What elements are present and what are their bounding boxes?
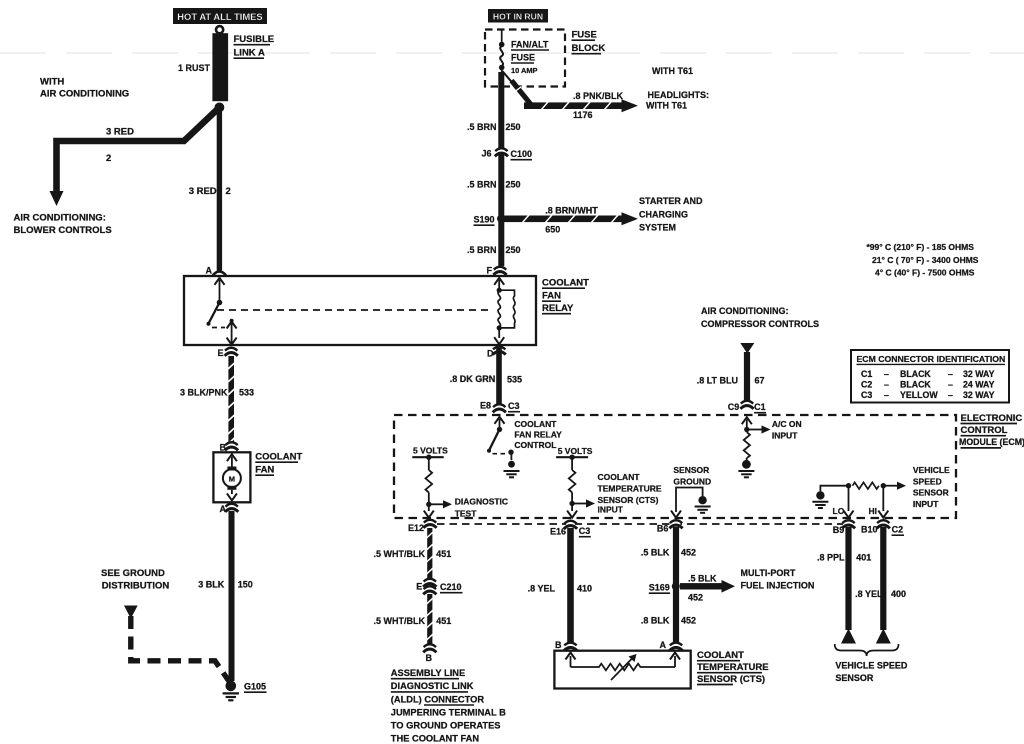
wire fusible link to relay pin A [217, 107, 222, 271]
label FAN/ALT FUSE 10 AMP [511, 40, 549, 76]
fan/alt fuse element [500, 30, 503, 88]
coolant fan motor [223, 467, 241, 490]
svg-text:1176: 1176 [573, 110, 593, 120]
CTS pin A entry arrow [670, 653, 680, 668]
A/C compressor feed triangle [740, 343, 754, 354]
svg-text:–: – [884, 390, 889, 400]
label DIAGNOSTIC TEST [455, 497, 508, 519]
label HEADLIGHTS: WITH T61 [646, 90, 709, 111]
dashed ground wire [131, 616, 230, 682]
svg-text:ELECTRONIC: ELECTRONIC [961, 413, 1023, 424]
svg-text:INPUT: INPUT [598, 505, 624, 515]
label ASSEMBLY LINE DIAGNOSTIC LINK (ALDL) CONNECTOR note [391, 668, 506, 744]
svg-text:C9: C9 [728, 402, 740, 412]
svg-text:400: 400 [891, 589, 906, 599]
relay coil [498, 290, 515, 328]
svg-text:535: 535 [507, 375, 522, 385]
svg-text:CONTROL: CONTROL [514, 440, 556, 450]
svg-text:C2: C2 [892, 525, 904, 535]
svg-text:SPEED: SPEED [913, 476, 942, 486]
svg-text:250: 250 [506, 122, 521, 132]
svg-text:CHARGING: CHARGING [639, 210, 688, 220]
svg-text:DISTRIBUTION: DISTRIBUTION [102, 581, 170, 592]
svg-text:A: A [660, 640, 667, 650]
svg-text:RELAY: RELAY [542, 303, 574, 314]
svg-text:–: – [884, 369, 889, 379]
5 volts supply (CTS) [556, 446, 593, 470]
svg-text:.5 BRN: .5 BRN [467, 122, 497, 132]
CTS input node [567, 492, 595, 517]
speed sensor terminal triangle LO [841, 629, 856, 644]
svg-text:M: M [229, 474, 235, 483]
svg-text:AIR CONDITIONING:: AIR CONDITIONING: [14, 213, 106, 224]
svg-text:ECM CONNECTOR IDENTIFICATION: ECM CONNECTOR IDENTIFICATION [857, 354, 1006, 364]
arrow to A/C blower controls [50, 191, 64, 206]
ECM dashed box [394, 415, 956, 518]
svg-text:.8 BLK: .8 BLK [641, 616, 670, 626]
coolant fan box [213, 452, 250, 502]
sensor ground net [671, 488, 711, 518]
svg-text:THE COOLANT FAN: THE COOLANT FAN [391, 734, 480, 744]
svg-text:STARTER AND: STARTER AND [639, 196, 703, 206]
label FUSE BLOCK [572, 30, 606, 55]
svg-text:3 RED: 3 RED [106, 127, 134, 138]
wire relay D to ECM E8 [496, 348, 502, 404]
svg-text:TO GROUND OPERATES: TO GROUND OPERATES [391, 721, 501, 731]
svg-text:LINK A: LINK A [234, 48, 265, 59]
svg-text:COOLANT: COOLANT [542, 278, 589, 289]
wire B10 to speed sensor [880, 527, 886, 630]
svg-text:S169: S169 [649, 583, 670, 593]
label WITH AIR CONDITIONING [40, 77, 129, 100]
resistor (CTS pull-up) [569, 470, 576, 492]
svg-text:MULTI-PORT: MULTI-PORT [741, 568, 796, 578]
connector at pin D [493, 346, 506, 354]
svg-text:GROUND: GROUND [673, 477, 711, 487]
svg-text:TEMPERATURE: TEMPERATURE [697, 662, 769, 673]
svg-text:VEHICLE SPEED: VEHICLE SPEED [835, 661, 908, 671]
junction dot below fusible link [215, 103, 225, 113]
svg-text:B: B [426, 653, 433, 663]
svg-text:BLACK: BLACK [900, 379, 931, 389]
wire B6 to CTS pin A [673, 527, 679, 644]
svg-text:COOLANT: COOLANT [598, 472, 641, 482]
svg-text:DIAGNOSTIC LINK: DIAGNOSTIC LINK [391, 681, 474, 691]
label ELECTRONIC CONTROL MODULE (ECM) [959, 413, 1024, 448]
coolant fan relay box [184, 276, 536, 345]
svg-text:INPUT: INPUT [772, 431, 798, 441]
svg-text:(ALDL) CONNECTOR: (ALDL) CONNECTOR [391, 694, 485, 704]
svg-text:E: E [416, 582, 422, 592]
svg-text:3 BLK/PNK: 3 BLK/PNK [180, 388, 228, 398]
svg-text:3 BLK: 3 BLK [198, 580, 225, 590]
svg-text:2: 2 [226, 186, 231, 197]
svg-text:HEADLIGHTS:: HEADLIGHTS: [648, 90, 710, 100]
svg-text:FUSIBLE: FUSIBLE [234, 34, 275, 45]
wire fuse block to relay pin F [498, 72, 504, 266]
connector at B10 [877, 520, 890, 528]
CTS resistance note [867, 242, 979, 278]
label FUSIBLE LINK A [234, 34, 275, 59]
label COOLANT FAN RELAY CONTROL [514, 419, 562, 450]
speed sensor terminal triangle HI [876, 629, 891, 644]
relay switch dashed link [212, 327, 225, 329]
relay switch pivot dot [217, 300, 223, 306]
label AIR CONDITIONING: COMPRESSOR CONTROLS [701, 306, 819, 329]
svg-text:INPUT: INPUT [913, 499, 939, 509]
twisted wire relay E to coolant fan B [227, 356, 235, 446]
label VEHICLE SPEED SENSOR [835, 661, 908, 684]
svg-text:BLOCK: BLOCK [572, 43, 606, 54]
wire branch to A/C blower controls [57, 107, 220, 194]
connector C210 [423, 579, 436, 587]
label SENSOR GROUND [673, 465, 711, 487]
connector C100 [495, 148, 508, 156]
svg-text:MODULE (ECM): MODULE (ECM) [959, 437, 1024, 447]
svg-text:B10: B10 [861, 525, 878, 535]
svg-text:SENSOR: SENSOR [673, 465, 709, 475]
svg-text:C3: C3 [579, 526, 591, 536]
connector at E16 [564, 521, 577, 529]
svg-text:250: 250 [506, 245, 521, 255]
svg-text:4° C (40° F) - 7500 OHMS: 4° C (40° F) - 7500 OHMS [875, 268, 975, 278]
svg-text:C210: C210 [440, 582, 462, 592]
relay switch blade [209, 303, 220, 324]
connector at ALDL pin B [423, 644, 436, 652]
svg-text:SYSTEM: SYSTEM [639, 223, 676, 233]
wire fan A to ground G105 [229, 511, 235, 681]
label COOLANT FAN [255, 452, 302, 476]
wire E16 to CTS pin B [567, 528, 574, 644]
svg-text:C100: C100 [511, 149, 533, 159]
relay pin D exit arrow [494, 328, 504, 344]
svg-text:SENSOR (CTS): SENSOR (CTS) [697, 674, 765, 685]
svg-text:C3: C3 [861, 390, 872, 400]
node HOT AT ALL TIMES [173, 8, 267, 24]
svg-text:3 RED: 3 RED [189, 186, 217, 197]
svg-text:452: 452 [681, 548, 696, 558]
coolant fan relay control switch [495, 417, 505, 430]
svg-text:451: 451 [436, 549, 451, 559]
svg-text:COOLANT: COOLANT [697, 650, 744, 661]
svg-text:A/C ON: A/C ON [772, 419, 802, 429]
svg-text:C1: C1 [861, 369, 872, 379]
svg-text:ASSEMBLY LINE: ASSEMBLY LINE [391, 668, 465, 678]
connector at pin F [493, 267, 506, 275]
CTS thermistor [571, 658, 676, 681]
svg-text:FAN: FAN [542, 291, 561, 302]
svg-text:COMPRESSOR CONTROLS: COMPRESSOR CONTROLS [701, 319, 819, 329]
svg-text:JUMPERING TERMINAL B: JUMPERING TERMINAL B [391, 708, 506, 718]
diagnostic test node [424, 492, 452, 517]
svg-text:–: – [948, 379, 953, 389]
ground G105 [223, 681, 239, 701]
svg-text:TEST: TEST [455, 509, 478, 519]
svg-text:.8 LT BLU: .8 LT BLU [697, 376, 738, 386]
svg-text:HOT IN RUN: HOT IN RUN [493, 12, 543, 22]
svg-text:32 WAY: 32 WAY [963, 390, 995, 400]
svg-text:WITH T61: WITH T61 [652, 66, 693, 76]
svg-text:E: E [218, 348, 224, 358]
svg-text:5 VOLTS: 5 VOLTS [558, 446, 593, 456]
svg-text:.8 BRN/WHT: .8 BRN/WHT [545, 206, 598, 216]
vehicle speed sensor input circuit [812, 482, 906, 518]
fuse block dashed box [485, 30, 565, 87]
svg-text:C3: C3 [508, 401, 520, 411]
svg-text:B: B [555, 640, 562, 650]
fan pin A exit arrow [227, 490, 237, 501]
svg-text:E12: E12 [408, 523, 424, 533]
svg-text:FAN: FAN [255, 465, 274, 476]
svg-text:A: A [206, 266, 213, 276]
svg-text:HI: HI [869, 506, 878, 516]
svg-text:DIAGNOSTIC: DIAGNOSTIC [455, 497, 508, 507]
svg-text:*99° C (210° F) - 185 OHMS: *99° C (210° F) - 185 OHMS [867, 242, 975, 252]
wire to multi-port fuel injection [680, 580, 735, 593]
svg-text:.5 BLK: .5 BLK [641, 548, 670, 558]
fusible link A body [212, 33, 228, 101]
svg-text:SENSOR: SENSOR [835, 673, 874, 683]
CTS pin B entry arrow [566, 653, 576, 668]
svg-text:CONTROL: CONTROL [961, 425, 1008, 436]
node HOT IN RUN [488, 9, 548, 23]
svg-text:SEE GROUND: SEE GROUND [101, 568, 165, 579]
connector at CTS pin A [669, 642, 682, 650]
svg-text:COOLANT: COOLANT [514, 419, 557, 429]
svg-text:452: 452 [688, 593, 703, 603]
connector at E12 [423, 520, 436, 528]
svg-text:FAN RELAY: FAN RELAY [514, 430, 562, 440]
svg-text:S190: S190 [474, 215, 495, 225]
svg-text:.5 BLK: .5 BLK [688, 574, 717, 584]
svg-text:10 AMP: 10 AMP [511, 66, 537, 75]
splice S190 [497, 215, 504, 222]
svg-text:.8 DK GRN: .8 DK GRN [450, 374, 496, 384]
ECM bottom secondary dashed line [437, 523, 843, 525]
svg-text:24 WAY: 24 WAY [963, 379, 995, 389]
connector at fan pin B [225, 442, 238, 450]
svg-text:SENSOR: SENSOR [913, 488, 949, 498]
svg-text:YELLOW: YELLOW [900, 390, 938, 400]
svg-text:.5 BRN: .5 BRN [467, 180, 497, 190]
svg-text:BLOWER CONTROLS: BLOWER CONTROLS [14, 225, 112, 236]
svg-text:WITH: WITH [40, 77, 64, 88]
svg-text:.8 PPL: .8 PPL [817, 553, 845, 563]
svg-text:BLACK: BLACK [900, 369, 931, 379]
label COOLANT TEMPERATURE SENSOR (CTS) INPUT [598, 472, 662, 515]
svg-text:.8 YEL: .8 YEL [528, 584, 556, 594]
ground distribution arrow triangle [124, 606, 138, 619]
label COOLANT TEMPERATURE SENSOR (CTS) [697, 650, 769, 685]
svg-text:F: F [487, 266, 493, 276]
svg-text:J6: J6 [482, 149, 492, 159]
svg-text:1 RUST: 1 RUST [178, 63, 211, 73]
svg-text:451: 451 [436, 616, 451, 626]
fusible link A terminal ring [216, 26, 223, 33]
svg-text:G105: G105 [244, 682, 266, 692]
svg-text:533: 533 [239, 388, 254, 398]
connector at pin E [225, 348, 238, 356]
fan pin B entry arrow [227, 454, 237, 468]
coolant temperature sensor box [554, 651, 690, 689]
connector at B6 [669, 520, 682, 528]
relay pin F entry arrow [494, 278, 504, 290]
label MULTI-PORT FUEL INJECTION [741, 568, 815, 591]
label COOLANT FAN RELAY [542, 278, 589, 315]
svg-text:VEHICLE: VEHICLE [913, 465, 950, 475]
svg-text:452: 452 [681, 616, 696, 626]
svg-text:E8: E8 [480, 401, 491, 411]
svg-text:COOLANT: COOLANT [255, 452, 302, 463]
svg-text:.5 WHT/BLK: .5 WHT/BLK [374, 549, 426, 559]
svg-text:.8 PNK/BLK: .8 PNK/BLK [573, 91, 624, 101]
svg-text:.8 YEL: .8 YEL [855, 589, 883, 599]
label SEE GROUND DISTRIBUTION [101, 568, 169, 592]
connector at E8/C3 [493, 404, 506, 412]
svg-text:WITH T61: WITH T61 [646, 101, 687, 111]
connector at C9/C1 [740, 401, 753, 409]
svg-text:401: 401 [856, 553, 871, 563]
twisted wire C210 to ALDL B [426, 594, 433, 645]
svg-text:HOT AT ALL TIMES: HOT AT ALL TIMES [177, 11, 262, 22]
scan artifact line [0, 52, 1024, 54]
svg-text:650: 650 [545, 225, 560, 235]
connector at fan pin A [225, 504, 238, 512]
splice S169 [672, 582, 680, 590]
label VEHICLE SPEED SENSOR INPUT [913, 465, 950, 509]
svg-text:LO: LO [833, 506, 845, 516]
relay control contact and ground [504, 450, 520, 478]
label AIR CONDITIONING: BLOWER CONTROLS [14, 213, 112, 237]
svg-text:AIR CONDITIONING:: AIR CONDITIONING: [701, 306, 789, 316]
vehicle speed sensor brace [835, 644, 899, 656]
svg-text:B6: B6 [657, 524, 669, 534]
svg-text:2: 2 [106, 153, 111, 164]
svg-text:.5 BRN: .5 BRN [467, 245, 497, 255]
svg-text:67: 67 [755, 376, 765, 386]
label A/C ON INPUT [772, 419, 802, 441]
svg-text:FUSE: FUSE [572, 30, 597, 41]
svg-text:–: – [884, 379, 889, 389]
svg-text:5 VOLTS: 5 VOLTS [413, 445, 448, 455]
wire B9 to speed sensor [845, 527, 851, 630]
svg-text:–: – [948, 390, 953, 400]
relay contact at pin E [227, 319, 237, 345]
5 volts supply (diagnostic) [412, 445, 448, 470]
svg-text:FUSE: FUSE [511, 53, 535, 63]
twisted wire E12 to ALDL [426, 528, 433, 581]
wire to starter and charging system [504, 212, 638, 225]
svg-text:C1: C1 [754, 402, 766, 412]
relay internal dashed line [217, 309, 492, 311]
wire A/C to ECM C9 [744, 352, 750, 401]
svg-text:–: – [948, 369, 953, 379]
relay pin A entry arrow [215, 278, 225, 303]
svg-text:21° C ( 70° F) - 3400 OHMS: 21° C ( 70° F) - 3400 OHMS [872, 255, 979, 265]
A/C on input circuit [742, 417, 752, 429]
svg-text:250: 250 [506, 180, 521, 190]
wire branch to headlights [502, 71, 513, 84]
svg-text:C2: C2 [861, 379, 872, 389]
svg-text:.5 WHT/BLK: .5 WHT/BLK [374, 616, 426, 626]
label STARTER AND CHARGING SYSTEM [639, 196, 703, 233]
svg-text:FAN/ALT: FAN/ALT [511, 40, 549, 50]
svg-text:410: 410 [577, 584, 592, 594]
svg-text:150: 150 [238, 580, 253, 590]
connector at CTS pin B [564, 642, 577, 650]
svg-text:AIR CONDITIONING: AIR CONDITIONING [40, 89, 129, 100]
svg-text:SENSOR (CTS): SENSOR (CTS) [598, 495, 659, 505]
svg-text:TEMPERATURE: TEMPERATURE [598, 484, 662, 494]
svg-text:FUEL INJECTION: FUEL INJECTION [741, 581, 815, 591]
ECM connector identification table [851, 350, 1009, 403]
connector at B9 [842, 520, 855, 528]
resistor (diagnostic pull-up) [425, 470, 432, 492]
svg-text:32 WAY: 32 WAY [963, 369, 995, 379]
